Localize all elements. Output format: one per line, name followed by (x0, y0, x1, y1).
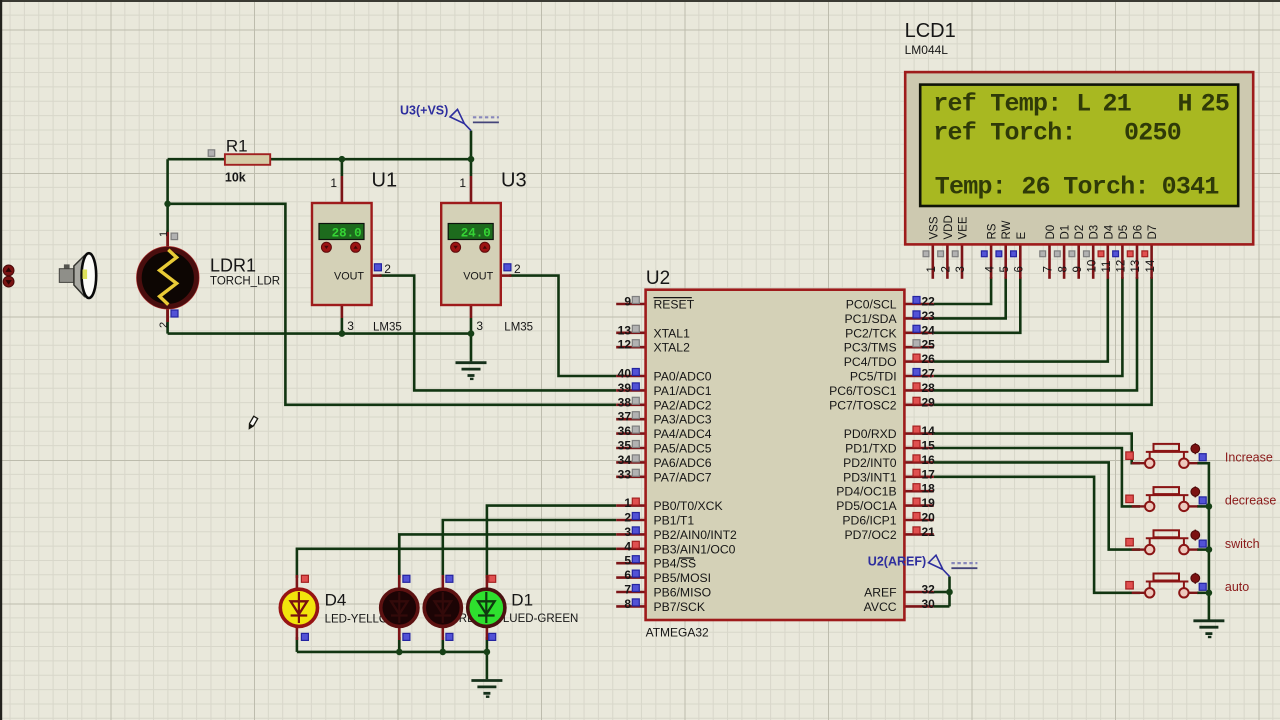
svg-text:Increase: Increase (1225, 450, 1273, 464)
svg-text:10k: 10k (225, 171, 246, 185)
svg-text:PC2/TCK: PC2/TCK (845, 326, 896, 340)
svg-text:PC5/TDI: PC5/TDI (850, 370, 897, 384)
svg-text:ATMEGA32: ATMEGA32 (646, 626, 709, 640)
svg-text:19: 19 (922, 496, 936, 510)
svg-text:12: 12 (618, 338, 632, 352)
svg-text:6: 6 (624, 568, 631, 582)
svg-text:PC0/SCL: PC0/SCL (846, 298, 897, 312)
svg-text:32: 32 (922, 583, 936, 597)
svg-text:PB0/T0/XCK: PB0/T0/XCK (654, 499, 723, 513)
svg-text:17: 17 (922, 467, 936, 481)
svg-text:PA4/ADC4: PA4/ADC4 (654, 427, 712, 441)
svg-text:D6: D6 (1133, 225, 1145, 240)
svg-text:8: 8 (624, 597, 631, 611)
svg-text:RS: RS (987, 223, 999, 239)
svg-text:LUED-GREEN: LUED-GREEN (503, 613, 578, 625)
svg-text:1: 1 (330, 176, 337, 190)
svg-text:9: 9 (624, 295, 631, 309)
svg-text:5: 5 (999, 266, 1011, 272)
svg-text:27: 27 (922, 367, 936, 381)
svg-text:1: 1 (158, 231, 170, 237)
svg-text:PC6/TOSC1: PC6/TOSC1 (829, 384, 897, 398)
svg-text:D3: D3 (1089, 225, 1101, 240)
svg-text:VDD: VDD (943, 215, 955, 239)
svg-text:36: 36 (618, 424, 632, 438)
svg-text:auto: auto (1225, 580, 1249, 594)
svg-text:16: 16 (922, 453, 936, 467)
svg-text:U2(AREF): U2(AREF) (868, 555, 926, 569)
svg-text:14: 14 (1145, 259, 1157, 272)
svg-text:3: 3 (624, 525, 631, 539)
svg-text:40: 40 (618, 367, 632, 381)
svg-text:PB2/AIN0/INT2: PB2/AIN0/INT2 (654, 528, 738, 542)
svg-text:XTAL2: XTAL2 (654, 341, 691, 355)
svg-text:PC4/TDO: PC4/TDO (844, 355, 897, 369)
svg-text:2: 2 (384, 262, 391, 276)
svg-text:10: 10 (1086, 260, 1098, 273)
svg-text:2: 2 (514, 262, 521, 276)
svg-text:ref Temp:: ref Temp: (933, 90, 1061, 119)
svg-text:PB1/T1: PB1/T1 (654, 514, 695, 528)
svg-text:PD7/OC2: PD7/OC2 (844, 528, 896, 542)
svg-text:1: 1 (926, 266, 938, 272)
svg-text:switch: switch (1225, 537, 1260, 551)
svg-text:U2: U2 (646, 268, 670, 289)
svg-text:1: 1 (459, 176, 466, 190)
svg-text:3: 3 (476, 319, 483, 333)
svg-text:Temp:: Temp: (935, 173, 1006, 202)
svg-text:D7: D7 (1147, 225, 1159, 240)
svg-text:5: 5 (624, 554, 631, 568)
svg-text:24.0: 24.0 (461, 227, 491, 241)
svg-text:PA5/ADC5: PA5/ADC5 (654, 442, 712, 456)
svg-text:24: 24 (922, 323, 936, 337)
svg-text:D1: D1 (1060, 225, 1072, 240)
svg-text:PB6/MISO: PB6/MISO (654, 586, 712, 600)
svg-text:VOUT: VOUT (463, 271, 493, 283)
svg-text:LCD1: LCD1 (905, 20, 956, 42)
svg-text:22: 22 (922, 295, 936, 309)
svg-text:RESET: RESET (654, 298, 695, 312)
svg-text:VSS: VSS (928, 216, 940, 239)
svg-text:LM044L: LM044L (905, 43, 949, 57)
svg-text:PC3/TMS: PC3/TMS (844, 341, 897, 355)
svg-text:28: 28 (922, 381, 936, 395)
svg-text:PB3/AIN1/OC0: PB3/AIN1/OC0 (654, 542, 736, 556)
svg-text:28.0: 28.0 (332, 227, 362, 241)
svg-text:39: 39 (618, 381, 632, 395)
svg-text:decrease: decrease (1225, 494, 1276, 508)
svg-text:D2: D2 (1074, 225, 1086, 240)
svg-text:D5: D5 (1118, 225, 1130, 240)
svg-text:7: 7 (1043, 266, 1055, 272)
svg-text:9: 9 (1072, 266, 1084, 272)
svg-text:3: 3 (347, 319, 354, 333)
svg-text:VEE: VEE (958, 216, 970, 239)
svg-text:LM35: LM35 (504, 322, 533, 334)
svg-text:Torch:: Torch: (1063, 173, 1149, 202)
svg-text:PA2/ADC2: PA2/ADC2 (654, 398, 712, 412)
svg-text:21: 21 (1103, 90, 1132, 119)
svg-text:7: 7 (624, 583, 631, 597)
svg-text:PC7/TOSC2: PC7/TOSC2 (829, 398, 897, 412)
svg-text:18: 18 (922, 482, 936, 496)
svg-text:E: E (1016, 232, 1028, 240)
svg-text:D4: D4 (325, 591, 347, 610)
svg-text:PA7/ADC7: PA7/ADC7 (654, 470, 712, 484)
svg-text:U3(+VS): U3(+VS) (400, 104, 448, 118)
svg-text:PB7/SCK: PB7/SCK (654, 600, 705, 614)
svg-text:29: 29 (922, 395, 936, 409)
svg-text:XTAL1: XTAL1 (654, 326, 691, 340)
svg-text:20: 20 (922, 511, 936, 525)
svg-text:14: 14 (922, 424, 936, 438)
svg-text:PB4/SS: PB4/SS (654, 557, 697, 571)
svg-text:26: 26 (1021, 173, 1050, 202)
svg-text:1: 1 (624, 496, 631, 510)
svg-text:AVCC: AVCC (864, 600, 897, 614)
svg-text:0250: 0250 (1124, 118, 1181, 147)
svg-text:33: 33 (618, 467, 632, 481)
svg-text:25: 25 (1201, 90, 1230, 119)
svg-text:PD6/ICP1: PD6/ICP1 (842, 514, 896, 528)
svg-text:2: 2 (941, 266, 953, 272)
svg-text:D4: D4 (1103, 224, 1115, 239)
svg-text:PD1/TXD: PD1/TXD (845, 442, 897, 456)
svg-text:PD3/INT1: PD3/INT1 (843, 470, 897, 484)
svg-text:2: 2 (624, 511, 631, 525)
svg-text:PD4/OC1B: PD4/OC1B (836, 485, 896, 499)
svg-text:38: 38 (618, 395, 632, 409)
svg-text:PC1/SDA: PC1/SDA (844, 312, 897, 326)
svg-text:TORCH_LDR: TORCH_LDR (210, 276, 280, 288)
svg-text:13: 13 (618, 323, 632, 337)
svg-text:13: 13 (1130, 260, 1142, 273)
svg-text:VOUT: VOUT (334, 271, 364, 283)
svg-text:35: 35 (618, 439, 632, 453)
svg-text:2: 2 (158, 322, 170, 328)
svg-text:3: 3 (955, 266, 967, 272)
svg-text:12: 12 (1116, 260, 1128, 273)
svg-text:26: 26 (922, 352, 936, 366)
svg-text:21: 21 (922, 525, 936, 539)
svg-text:30: 30 (922, 597, 936, 611)
svg-text:PD0/RXD: PD0/RXD (844, 427, 897, 441)
svg-text:PA0/ADC0: PA0/ADC0 (654, 370, 712, 384)
svg-text:8: 8 (1057, 266, 1069, 272)
svg-text:H: H (1178, 90, 1192, 119)
svg-text:D0: D0 (1045, 225, 1057, 240)
svg-text:4: 4 (624, 539, 631, 553)
svg-text:LM35: LM35 (373, 322, 402, 334)
svg-text:L: L (1076, 90, 1090, 119)
svg-text:PA6/ADC6: PA6/ADC6 (654, 456, 712, 470)
svg-text:R1: R1 (226, 137, 248, 156)
svg-text:U3: U3 (501, 170, 527, 192)
svg-text:ref Torch:: ref Torch: (933, 118, 1076, 147)
svg-text:U1: U1 (372, 170, 398, 192)
svg-text:11: 11 (1101, 261, 1113, 273)
svg-text:PD5/OC1A: PD5/OC1A (836, 499, 897, 513)
svg-text:PD2/INT0: PD2/INT0 (843, 456, 897, 470)
svg-text:LDR1: LDR1 (210, 256, 256, 276)
svg-text:PB5/MOSI: PB5/MOSI (654, 571, 712, 585)
svg-text:0341: 0341 (1162, 173, 1219, 202)
svg-text:25: 25 (922, 338, 936, 352)
svg-text:PA3/ADC3: PA3/ADC3 (654, 413, 712, 427)
svg-text:15: 15 (922, 439, 936, 453)
svg-text:RW: RW (1001, 220, 1013, 239)
svg-text:AREF: AREF (864, 586, 897, 600)
svg-text:4: 4 (984, 266, 996, 273)
svg-text:D1: D1 (511, 591, 533, 610)
svg-text:23: 23 (922, 309, 936, 323)
svg-text:6: 6 (1014, 266, 1026, 272)
svg-text:37: 37 (618, 410, 632, 424)
svg-text:PA1/ADC1: PA1/ADC1 (654, 384, 712, 398)
svg-text:34: 34 (618, 453, 632, 467)
